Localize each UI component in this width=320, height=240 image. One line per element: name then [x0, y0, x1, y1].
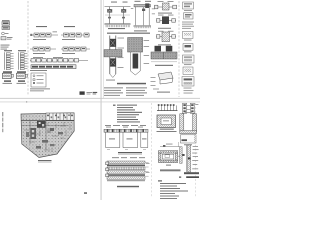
U-section detail 1	[180, 112, 197, 145]
notes list sheet2 two columns	[104, 87, 147, 95]
chain captions row1	[33, 38, 46, 41]
page number mark	[84, 192, 87, 193]
chain captions row2	[33, 52, 45, 55]
tall column detail T2	[128, 38, 150, 76]
layered wall caption	[117, 186, 139, 188]
middle column titles	[36, 26, 47, 27]
room band fixtures	[51, 116, 53, 118]
page gap horizontal line below top sheets	[0, 97, 200, 100]
layered wall section	[106, 157, 150, 181]
switch cluster	[1, 37, 13, 40]
panel symbol box A2	[2, 26, 10, 29]
distribution chain row1 right	[61, 33, 90, 37]
busbar panel block A	[3, 71, 14, 78]
notes block top	[113, 105, 142, 123]
main caption sheet2	[117, 83, 146, 85]
slab detail S1	[151, 46, 177, 66]
plan title	[38, 160, 52, 162]
riser ladder A	[4, 50, 14, 70]
secondary core	[31, 128, 37, 139]
meter symbol	[2, 32, 9, 35]
interior main wall	[21, 120, 74, 122]
notes list sheet4	[158, 180, 188, 199]
panel captions	[4, 80, 11, 81]
page gap second vertical line top row	[102, 0, 105, 98]
fold dashed line sheet2	[178, 1, 180, 97]
pit plan detail 2 masonry ring	[158, 151, 181, 172]
legend table	[31, 73, 46, 87]
dense chain row4	[31, 65, 76, 69]
distribution chain row1 left	[30, 31, 58, 37]
interior wall lines	[24, 122, 70, 152]
wide caption line sheet2 top	[107, 33, 150, 34]
scattered dark marks	[50, 128, 54, 131]
leader line detail	[160, 142, 180, 147]
horizontal assembly A2	[156, 15, 176, 29]
right column mini details sheet2	[182, 2, 194, 93]
support elevation detail D1	[105, 2, 134, 30]
distribution chain row2 right	[61, 47, 90, 51]
busbar panel block B	[17, 71, 28, 78]
title stamp sheet1	[80, 91, 98, 94]
long chain row3	[30, 57, 88, 62]
page gap vertical line between left and right sheets	[100, 0, 103, 200]
pit plan detail	[157, 115, 177, 132]
horizontal assembly A1	[154, 1, 177, 14]
tall column detail T1	[104, 36, 124, 81]
vertical sheet label text	[2, 112, 3, 132]
room band top	[46, 113, 74, 120]
bolt assembly	[183, 103, 199, 113]
distribution chain row2 left	[30, 47, 56, 51]
fold dashed line sheet4 left	[151, 103, 153, 198]
pier caption	[118, 152, 142, 154]
tiny registration tick on gap line	[26, 101, 27, 102]
wall section right bottom	[179, 145, 199, 178]
note text lines left	[1, 45, 10, 50]
fold dashed line sheet1	[27, 1, 29, 96]
bracket iso detail	[151, 72, 174, 93]
page gap horizontal line above bottom sheets	[0, 101, 200, 104]
core cluster dark	[37, 121, 46, 128]
fold dashed line sheet4 right	[194, 103, 196, 198]
frame detail D2	[134, 1, 156, 32]
riser ladder B	[18, 50, 27, 70]
pier table detail	[104, 125, 148, 149]
horizontal assembly A3	[156, 31, 176, 46]
railing elevation	[157, 104, 178, 110]
floor plan polygon	[21, 113, 74, 158]
panel symbol box A1	[2, 20, 10, 25]
stair marks	[47, 129, 51, 133]
